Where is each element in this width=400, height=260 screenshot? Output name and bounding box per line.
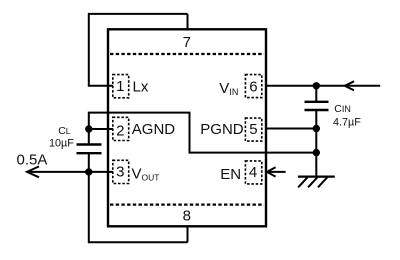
label PGND xyxy=(200,121,244,138)
pin 8 number label xyxy=(183,208,191,225)
label Lx xyxy=(133,78,149,95)
ground xyxy=(298,177,335,188)
capacitor CIN xyxy=(305,86,329,176)
pin 6 number xyxy=(249,78,257,95)
label AGND xyxy=(132,121,176,138)
pin 6 box xyxy=(245,75,261,98)
pin 3 box xyxy=(113,160,129,183)
pin 2 number xyxy=(116,123,124,140)
pin 8 dotted boundary xyxy=(110,204,264,206)
pin 4 box xyxy=(245,161,261,184)
pin 5 number xyxy=(249,121,257,138)
label 4.7uF xyxy=(333,116,361,128)
svg-text:Lx: Lx xyxy=(133,78,149,95)
node Vin junction xyxy=(313,82,320,89)
pin 7 dotted boundary xyxy=(110,53,264,55)
pin 3 number xyxy=(116,163,124,180)
label Vin xyxy=(219,80,238,97)
wire AGND internal ground path (step through IC to right side) xyxy=(89,113,316,153)
svg-text:5: 5 xyxy=(249,121,257,138)
pin 1 box xyxy=(113,75,129,98)
label EN xyxy=(220,166,241,183)
label 0.5A xyxy=(17,151,48,168)
svg-text:2: 2 xyxy=(116,123,124,140)
pin 2 box xyxy=(113,117,129,140)
pin 4 number xyxy=(249,164,257,181)
pin 5 box xyxy=(245,118,261,141)
label Vout xyxy=(132,166,160,183)
wire Vout loop: pin3 node to pin8 xyxy=(89,172,188,242)
pin 8 stub wire xyxy=(187,226,189,242)
wire EN enable input arrow xyxy=(267,167,286,176)
wire AGND pin2 xyxy=(89,128,113,130)
capacitor CL xyxy=(77,129,102,172)
svg-text:EN: EN xyxy=(220,166,241,183)
node ground junction xyxy=(313,149,320,156)
pin 1 number xyxy=(116,78,124,95)
node Vout junction xyxy=(85,168,92,175)
IC body U1 xyxy=(108,29,266,226)
svg-text:CIN: CIN xyxy=(334,103,351,115)
svg-text:10µF: 10µF xyxy=(49,138,74,150)
svg-text:0.5A: 0.5A xyxy=(17,151,48,168)
wire Vin input with arrow xyxy=(266,81,380,90)
svg-text:3: 3 xyxy=(116,163,124,180)
svg-text:VIN: VIN xyxy=(219,80,238,97)
svg-text:4.7µF: 4.7µF xyxy=(333,116,361,128)
svg-text:CL: CL xyxy=(58,125,71,137)
svg-text:AGND: AGND xyxy=(132,121,176,138)
svg-text:1: 1 xyxy=(116,78,124,95)
svg-text:7: 7 xyxy=(183,34,191,51)
wire Lx loop: pin1 to pin7 xyxy=(89,14,188,86)
node AGND junction xyxy=(85,125,92,132)
wire Vout output with 0.5A arrow xyxy=(27,166,113,177)
svg-text:6: 6 xyxy=(249,78,257,95)
label CIN xyxy=(334,103,351,115)
wire PGND pin5 xyxy=(266,128,316,130)
svg-text:8: 8 xyxy=(183,208,191,225)
node PGND junction xyxy=(313,125,320,132)
svg-text:4: 4 xyxy=(249,164,257,181)
label CL xyxy=(58,125,71,137)
pin 7 stub wire xyxy=(187,14,189,29)
pin 7 number label xyxy=(183,34,191,51)
svg-text:VOUT: VOUT xyxy=(132,166,160,183)
label 10uF xyxy=(49,138,74,150)
svg-text:PGND: PGND xyxy=(200,121,244,138)
